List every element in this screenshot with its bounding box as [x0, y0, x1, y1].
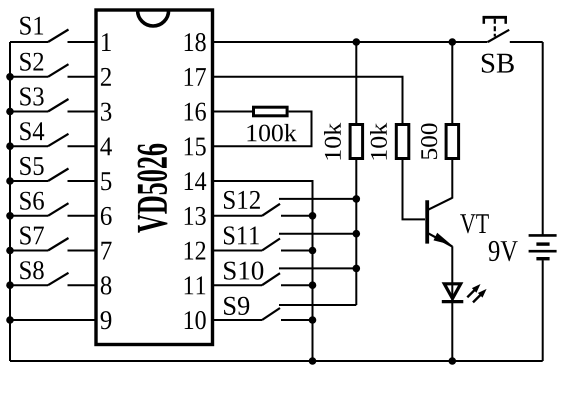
pin number 3 (left) — [101, 103, 111, 121]
switch S3 blade — [48, 99, 69, 112]
pin number 2 (left) — [101, 68, 111, 86]
wire: left common bus — [9, 42, 11, 361]
switch S11 contact stub to data bus — [281, 250, 313, 252]
resistor R1 value 10k — [324, 123, 341, 160]
switch S5 lead from bus — [10, 180, 48, 182]
switch S4 lead from bus — [10, 145, 48, 147]
junction: data bus / bottom bus — [309, 357, 317, 365]
label S7 — [20, 226, 44, 244]
wire: R3 bottom to collector — [451, 159, 453, 199]
switch S5 blade — [48, 169, 69, 182]
switch S9 lead from pin — [213, 319, 262, 321]
pin number 6 (left) — [101, 207, 112, 225]
pin number 13 (right) — [185, 207, 206, 225]
wire: R1 bottom bus to S9 pole line — [355, 159, 357, 305]
wire: pin 18 supply rail — [213, 41, 488, 43]
switch S4 lead to pin 4 — [68, 145, 97, 147]
label VT — [460, 214, 489, 233]
LED VL triangle — [444, 284, 460, 299]
switch S2 lead to pin 2 — [68, 76, 97, 78]
junction: left bus / S7 — [6, 247, 14, 255]
switch S2 blade — [48, 64, 69, 77]
resistor R2 10k body — [396, 125, 409, 159]
LED VL cathode bar — [442, 300, 464, 303]
pin number 7 (left) — [101, 242, 111, 260]
switch S7 lead to pin 7 — [68, 250, 97, 252]
battery GB long plate 1 — [529, 234, 557, 237]
IC U1 label VD5026 — [137, 144, 167, 233]
switch S3 lead from bus — [10, 111, 48, 113]
junction: left bus / S3 — [6, 108, 14, 116]
junction: 10k bus / S11 pole — [353, 230, 361, 238]
battery GB long plate 2 — [529, 250, 557, 253]
junction: left bus / S8 — [6, 281, 14, 289]
junction: data bus / S9 contact — [309, 316, 317, 324]
IC U1 notch — [138, 11, 169, 27]
label S9 — [224, 297, 249, 315]
label S10 — [224, 262, 263, 280]
switch S5 lead to pin 5 — [68, 180, 97, 182]
pin number 10 (right) — [185, 311, 206, 329]
resistor R2 value 10k — [370, 123, 387, 160]
battery GB short plate 2 — [536, 257, 549, 260]
junction: left bus / pin 9 — [6, 316, 14, 324]
switch S7 lead from bus — [10, 250, 48, 252]
label 9V — [489, 241, 518, 261]
label S3 — [20, 87, 43, 105]
battery GB short plate 1 — [536, 242, 549, 245]
switch S11 blade — [262, 239, 280, 251]
wire: R2 bottom to transistor base — [403, 159, 426, 219]
switch S10 lead from pin — [213, 284, 262, 286]
switch S8 lead to pin 8 — [68, 284, 97, 286]
LED VL light arrow 1 head — [472, 284, 481, 293]
label S12 — [224, 191, 260, 209]
junction: left bus / S4 — [6, 142, 14, 150]
switch S12 pole line to 10k bus — [279, 198, 356, 200]
switch S1 blade — [48, 30, 69, 43]
resistor R4 value 100k — [248, 124, 297, 141]
junction: data bus / S11 contact — [309, 247, 317, 255]
wire: R4 to pin 15 — [213, 112, 312, 147]
switch S3 lead to pin 3 — [68, 111, 97, 113]
resistor R3 value 500 — [421, 124, 437, 160]
pin number 14 (right) — [185, 172, 207, 190]
switch S10 contact stub to data bus — [281, 284, 313, 286]
label S5 — [20, 157, 43, 175]
label S2 — [20, 53, 43, 71]
resistor R3 500 body — [446, 125, 459, 159]
pin number 11 (right) — [185, 276, 206, 294]
pin number 5 (left) — [101, 172, 111, 190]
wire: right bus from battery to bottom bus — [542, 260, 544, 361]
label S4 — [20, 122, 44, 140]
label S1 — [20, 17, 43, 35]
switch S11 lead from pin — [213, 250, 262, 252]
wire: right bus from SB down to battery — [542, 42, 544, 235]
junction: 10k bus / S12 pole — [353, 195, 361, 203]
wire: pin 9 to left bus — [10, 319, 96, 321]
pushbutton SB cap right tick — [504, 16, 507, 24]
label S11 — [224, 226, 259, 244]
pin number 4 (left) — [100, 138, 112, 156]
wire: pin 17 to R2 — [213, 77, 403, 123]
junction: left bus / S6 — [6, 212, 14, 220]
pin number 1 (left) — [102, 33, 111, 51]
wire: pin 14 down the data bus — [213, 181, 313, 361]
switch S10 blade — [262, 273, 280, 285]
junction: supply rail / R3 — [449, 38, 457, 46]
pin number 9 (left) — [101, 311, 112, 329]
junction: left bus / S2 — [6, 73, 14, 81]
wire: pin 16 to R4 — [213, 111, 252, 113]
junction: data bus / S10 contact — [309, 281, 317, 289]
transistor VT base bar — [425, 200, 429, 243]
switch S7 blade — [48, 238, 69, 251]
wire: bottom ground bus — [10, 360, 543, 362]
junction: LED branch / bottom bus — [449, 357, 457, 365]
switch S8 lead from bus — [10, 284, 48, 286]
switch S4 blade — [48, 134, 69, 146]
switch S2 lead from bus — [10, 76, 48, 78]
wire: supply rail to R1 — [355, 42, 357, 123]
transistor VT emitter arrowhead — [434, 233, 452, 245]
switch S1 lead from bus — [10, 41, 48, 43]
pin number 15 (right) — [185, 137, 206, 155]
IC U1 VD5026 body — [96, 10, 213, 345]
LED VL light arrow 2 shaft — [473, 295, 481, 303]
switch S9 contact stub to data bus — [281, 319, 313, 321]
resistor R1 10k body — [350, 125, 363, 159]
switch S12 contact stub to data bus — [281, 215, 313, 217]
junction: data bus / S12 contact — [309, 212, 317, 220]
wire: emitter through LED to bottom bus — [451, 246, 453, 361]
label S8 — [20, 261, 44, 279]
junction: supply rail / R1 — [353, 38, 361, 46]
switch S12 lead from pin — [213, 215, 262, 217]
label SB — [482, 54, 514, 73]
switch S12 blade — [262, 204, 280, 216]
pushbutton SB actuator dashed link — [494, 19, 496, 37]
pin number 12 (right) — [185, 242, 206, 260]
switch S10 pole line to 10k bus — [279, 267, 356, 269]
pin number 18 (right) — [185, 33, 206, 51]
LED VL light arrow 1 shaft — [467, 290, 475, 298]
switch S9 blade — [262, 308, 280, 320]
switch S9 pole line to 10k bus — [279, 304, 356, 306]
switch S6 lead from bus — [10, 215, 48, 217]
junction: 10k bus / S10 pole — [353, 265, 361, 273]
pushbutton SB cap bar — [483, 16, 507, 19]
switch S6 lead to pin 6 — [68, 215, 97, 217]
transistor VT emitter — [428, 233, 452, 246]
LED VL light arrow 2 head — [478, 289, 487, 298]
switch S1 lead to pin 1 — [68, 41, 97, 43]
pushbutton SB right contact wire — [510, 41, 543, 43]
switch S6 blade — [48, 203, 69, 216]
label S6 — [20, 192, 44, 210]
wire: supply rail to R3 — [451, 42, 453, 123]
pushbutton SB blade — [488, 30, 509, 42]
junction: left bus / S5 — [6, 177, 14, 185]
pushbutton SB cap left tick — [483, 16, 486, 24]
pin number 17 (right) — [185, 68, 206, 86]
resistor R4 100k body — [254, 107, 288, 116]
switch S11 pole line to 10k bus — [279, 233, 356, 235]
pin number 8 (left) — [101, 276, 112, 294]
transistor VT collector — [428, 198, 452, 210]
pin number 16 (right) — [185, 103, 206, 121]
switch S8 blade — [48, 273, 69, 285]
